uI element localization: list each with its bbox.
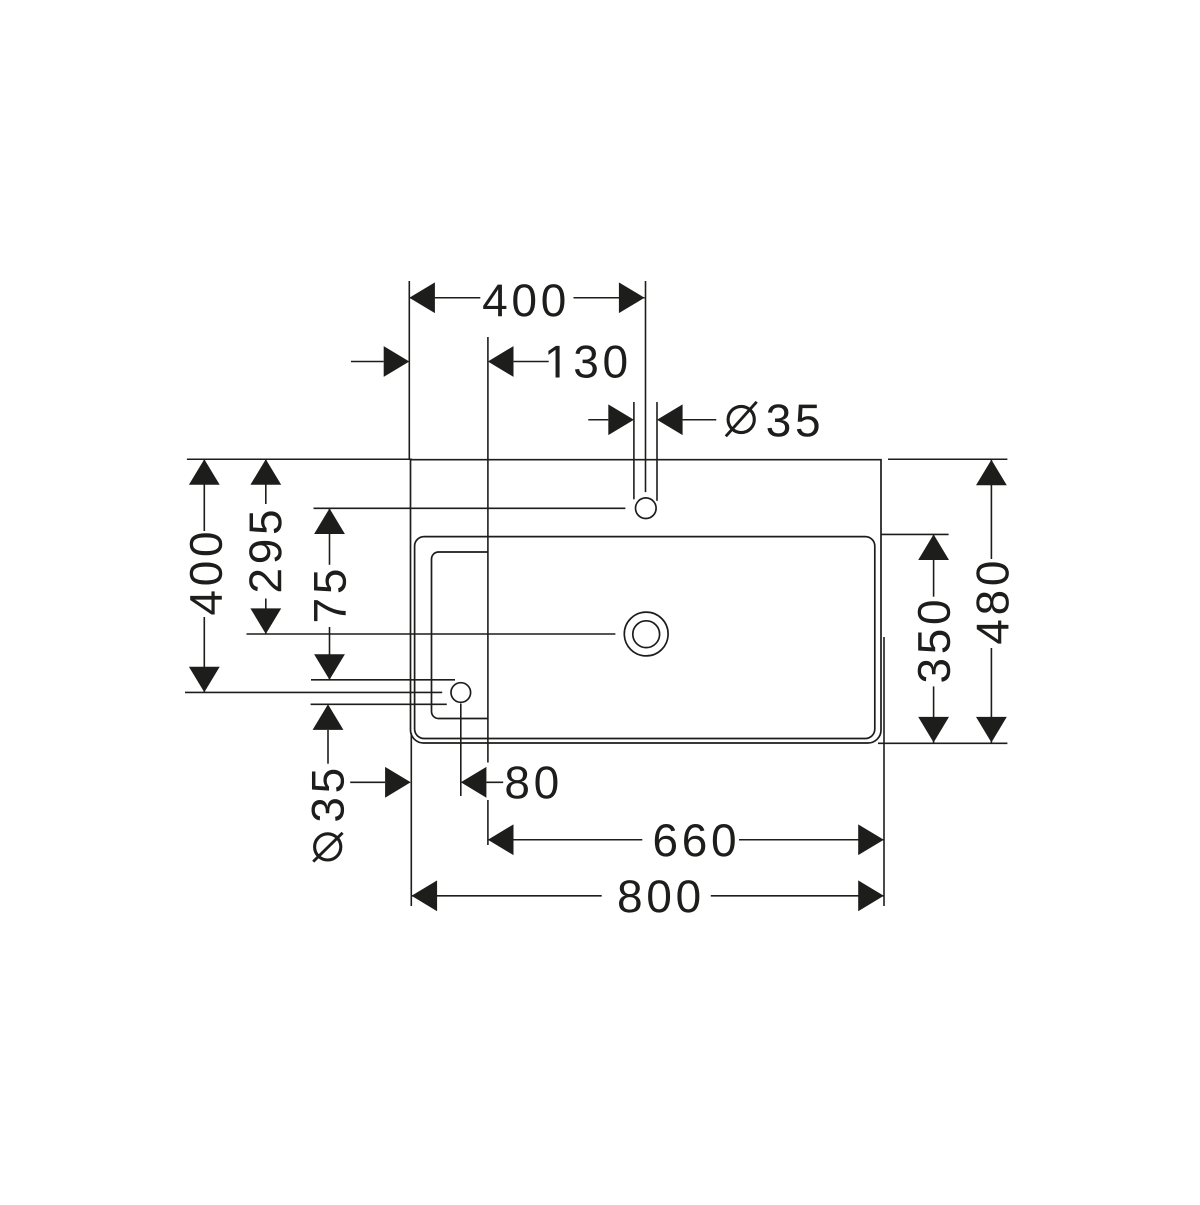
extension faucet right tangent xyxy=(656,402,658,501)
arrow 295 down xyxy=(250,608,281,634)
leader overflow center horizontal xyxy=(185,691,442,693)
arrow 800 left xyxy=(412,880,438,911)
washbasin outer body outline xyxy=(411,460,882,743)
label dia35 top: diameter symbol xyxy=(728,406,754,432)
arrow dia35left outside bottom xyxy=(313,704,344,730)
dim line 480 xyxy=(990,460,992,559)
arrow 400top right xyxy=(619,282,645,313)
arrow 400left up xyxy=(189,459,220,485)
dim line 130 xyxy=(351,361,384,363)
dim line 80 xyxy=(350,781,385,783)
arrow 350 down xyxy=(918,717,949,743)
extension line x488 lower xyxy=(487,800,489,845)
tick body bottom right xyxy=(878,742,1007,744)
leader overflow top tangent xyxy=(311,679,455,681)
leader overflow bottom tangent xyxy=(311,703,447,705)
dim line 660 xyxy=(488,839,642,841)
arrow 130 outside right xyxy=(488,346,514,377)
arrow 480 down xyxy=(976,717,1007,743)
label 80 xyxy=(506,766,557,799)
dim line 400 top xyxy=(409,297,480,299)
dim line 295 xyxy=(265,459,267,504)
dim line 400 left xyxy=(203,459,205,531)
extension right edge down xyxy=(883,637,885,906)
arrow 800 right xyxy=(858,880,884,911)
label dia35 left: diameter symbol xyxy=(315,834,341,860)
extension faucet left tangent xyxy=(633,402,635,499)
arrow 130 outside left xyxy=(384,346,410,377)
drain inner circle xyxy=(633,621,660,648)
extension left edge down xyxy=(410,733,412,906)
label 350 xyxy=(918,601,951,682)
dim line 75 xyxy=(329,508,331,564)
overflow hole circle xyxy=(451,683,471,703)
arrow 400left down xyxy=(189,667,220,693)
dim line dia35 left tail xyxy=(327,730,329,764)
arrow 75 up xyxy=(314,508,345,534)
label dia35 left digits xyxy=(312,770,345,821)
extension line x488 upper xyxy=(487,337,489,763)
faucet hole circle xyxy=(636,498,657,519)
shelf inner contour xyxy=(432,552,488,719)
label 660 xyxy=(655,824,735,857)
drain outer circle xyxy=(624,612,668,656)
label 75 xyxy=(314,571,346,622)
label 480 xyxy=(976,562,1009,643)
leader faucet center horizontal xyxy=(314,507,626,509)
label 295 xyxy=(249,511,282,591)
dim line 350 xyxy=(933,534,935,596)
extension faucet centerline xyxy=(645,281,647,492)
label 400 top xyxy=(483,284,564,317)
label 400 left xyxy=(190,533,223,614)
extension left edge up xyxy=(408,281,410,460)
arrow dia35top outside left xyxy=(608,404,634,435)
arrow 80 outside left xyxy=(385,767,411,798)
leader top edge extension left xyxy=(187,458,412,460)
label 130 xyxy=(548,345,626,378)
arrow 480 up xyxy=(976,460,1007,486)
dim line 800 xyxy=(412,895,602,897)
arrow 75 down xyxy=(314,654,345,680)
leader drain center horizontal xyxy=(247,633,616,635)
extension overflow centerline down xyxy=(460,704,462,797)
arrow dia35top outside right xyxy=(657,404,683,435)
label dia35 top digits xyxy=(767,404,818,437)
dim line dia35 top xyxy=(588,419,608,421)
arrow 400top left xyxy=(409,282,435,313)
tick body top right xyxy=(888,458,1007,460)
arrow 660 left xyxy=(488,824,514,855)
arrow 295 up xyxy=(250,459,281,485)
tick basin top right xyxy=(881,533,949,535)
label 800 xyxy=(619,880,699,913)
arrow 350 up xyxy=(918,534,949,560)
basin rim rounded rectangle xyxy=(415,537,875,739)
arrow 660 right xyxy=(858,824,884,855)
arrow 80 outside right xyxy=(461,767,487,798)
